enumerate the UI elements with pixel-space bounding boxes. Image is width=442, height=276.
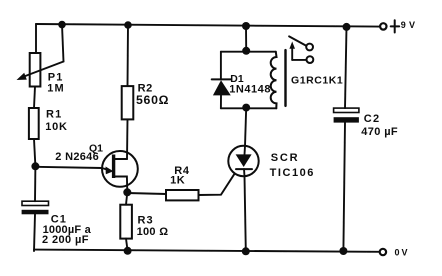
wire top rail to relay/diode loop [245, 26, 247, 51]
label 0V [395, 248, 408, 258]
junction top rail C2 [343, 23, 351, 31]
junction bottom rail SCR [242, 247, 250, 255]
wire R2 to Q1 base2 [126, 119, 129, 159]
wire R4 to SCR gate [199, 174, 235, 195]
wire R1 to node A [34, 139, 35, 166]
wire P1 to R1 [34, 87, 35, 109]
svg-text:470 µF: 470 µF [361, 126, 398, 138]
junction relay top [242, 47, 250, 55]
svg-text:SCR: SCR [271, 152, 300, 164]
wire C1 to bottom rail [34, 214, 35, 251]
wire node B to R3 [126, 192, 127, 204]
junction top rail P1 wiper [58, 21, 66, 29]
svg-text:1K: 1K [170, 175, 185, 187]
capacitor C1 [22, 201, 49, 214]
resistor R3 [120, 205, 132, 239]
potentiometer P1 [17, 53, 64, 87]
terminal +9V [380, 23, 386, 29]
label +9V [391, 20, 415, 33]
resistor R2 [122, 86, 134, 119]
label P1 1M [47, 72, 65, 95]
wire P1 wiper to top rail [62, 25, 64, 62]
svg-text:560Ω: 560Ω [136, 93, 169, 107]
svg-text:R3: R3 [138, 215, 154, 227]
relay contacts [289, 36, 313, 63]
wire C2 to bottom rail [343, 123, 345, 251]
wire left drop from top rail to P1 [35, 24, 37, 53]
svg-text:R1: R1 [46, 109, 62, 121]
svg-text:0: 0 [395, 248, 400, 258]
label C2 470uF [361, 113, 398, 138]
label Q1 2N2646 [55, 143, 103, 164]
label C1 values [42, 214, 92, 246]
junction node B [123, 188, 131, 196]
label R4 1K [170, 165, 190, 187]
label R1 10K [45, 109, 68, 133]
svg-text:V: V [409, 20, 415, 30]
svg-text:100 Ω: 100 Ω [137, 226, 169, 238]
wire relay loop top [221, 51, 276, 53]
svg-text:TIC106: TIC106 [270, 167, 315, 179]
label SCR TIC106 [270, 152, 315, 179]
wire relay to SCR anode [245, 108, 246, 146]
label R2 560 ohm [136, 83, 169, 107]
wire relay loop bottom [221, 107, 276, 109]
label R3 100 ohm [137, 215, 169, 238]
transistor Q1 2N2646 [102, 151, 138, 192]
svg-text:1M: 1M [47, 83, 65, 95]
wire top rail [36, 24, 380, 27]
wire bottom rail [34, 250, 379, 252]
label D1 1N4148 [229, 74, 271, 96]
terminal 0V [380, 249, 386, 255]
thyristor SCR TIC106 [228, 146, 258, 176]
junction relay bottom [242, 104, 250, 112]
junction bottom rail R3 [124, 247, 132, 255]
wire node A to C1 [34, 166, 36, 201]
junction bottom rail C2 [339, 247, 347, 255]
wire SCR cathode to bottom rail [245, 176, 246, 251]
resistor R1 [29, 108, 39, 139]
relay coil K1 [271, 52, 277, 109]
wire R2 top [127, 25, 130, 86]
junction node A [31, 162, 39, 170]
svg-text:C2: C2 [364, 113, 381, 125]
svg-text:G1RC1K1: G1RC1K1 [291, 75, 343, 87]
wire R3 to bottom rail [126, 239, 128, 251]
resistor R4 [166, 190, 199, 200]
svg-text:V: V [402, 248, 408, 258]
svg-text:2 200 µF: 2 200 µF [42, 234, 89, 246]
relay core bar [284, 50, 286, 106]
svg-text:2 N2646: 2 N2646 [55, 151, 99, 163]
capacitor C2 [334, 108, 359, 123]
junction top rail R2 [124, 21, 132, 29]
wire node B to R4 [127, 193, 166, 194]
diode D1 [212, 52, 231, 109]
junction top rail relay [242, 22, 250, 30]
svg-text:1N4148: 1N4148 [229, 83, 271, 95]
svg-text:10K: 10K [45, 121, 68, 133]
wire node A to Q1 emitter [35, 167, 101, 168]
svg-text:9: 9 [401, 20, 406, 30]
wire C2 top [345, 27, 347, 108]
